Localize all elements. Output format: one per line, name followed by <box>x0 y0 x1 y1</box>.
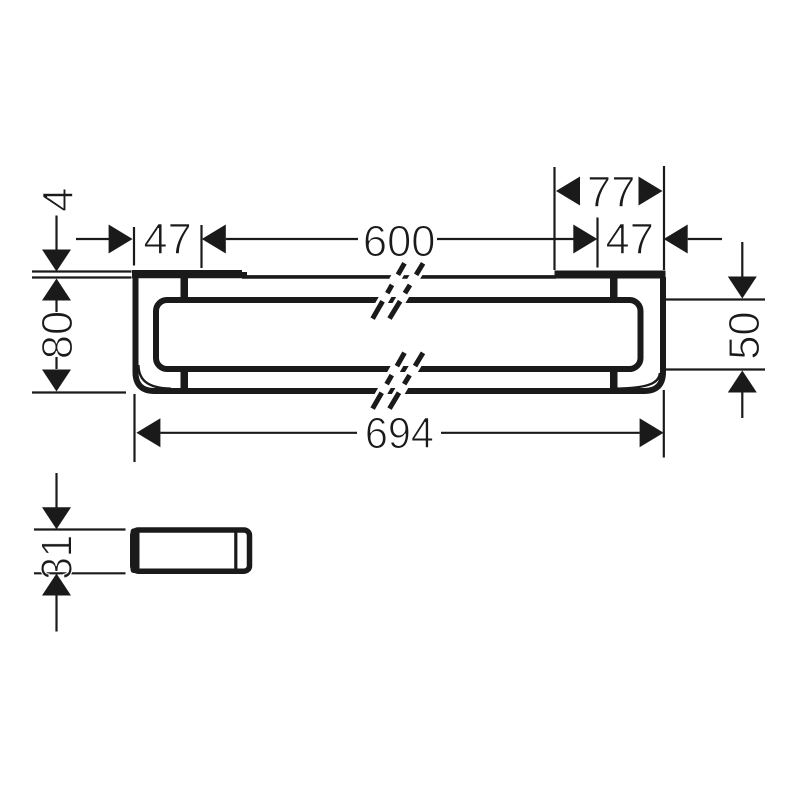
svg-text:47: 47 <box>606 216 654 264</box>
side view wall plate band <box>131 528 140 573</box>
svg-text:4: 4 <box>35 188 83 212</box>
towel bar outer body outline <box>136 277 664 391</box>
top break mark white halo <box>373 263 424 318</box>
dimension 694: extension lines, line, arrows <box>133 394 135 462</box>
svg-text:694: 694 <box>365 410 434 458</box>
svg-text:77: 77 <box>587 169 635 217</box>
left wall plate <box>132 270 247 278</box>
towel rail bar (rounded) <box>156 300 641 369</box>
top break mark slashes <box>373 263 405 318</box>
left corner fillet contour <box>138 365 171 389</box>
svg-text:80: 80 <box>34 311 82 359</box>
dimension 77: extension lines, arrows <box>553 167 555 270</box>
bottom break mark white halo <box>373 353 423 409</box>
dimension 80: arrows and line <box>42 279 71 301</box>
extension line body top (left) <box>32 276 132 278</box>
svg-text:47: 47 <box>143 216 191 264</box>
dimension 50: extension lines, arrows, line <box>666 298 765 300</box>
side view bar end divider <box>234 530 237 574</box>
extension line plate top (left) <box>32 270 132 272</box>
bottom break mark slashes <box>373 353 405 409</box>
svg-text:600: 600 <box>363 218 436 266</box>
dimension 47 right: arrow and line <box>664 225 688 254</box>
right corner fillet contour <box>614 373 660 389</box>
svg-text:50: 50 <box>721 311 769 359</box>
dimension 31: extension lines, line, arrows <box>34 528 126 530</box>
dimension 4: line and arrow <box>55 216 57 251</box>
svg-text:31: 31 <box>33 535 81 580</box>
dimension 47 left: line, arrows, extension lines <box>76 238 110 240</box>
side view outer profile <box>133 530 250 571</box>
left holder post <box>181 277 189 303</box>
body top edge line between wall plates <box>242 275 556 279</box>
right wall plate <box>555 271 666 279</box>
dimension 600: line and right arrow <box>226 238 574 240</box>
extension line body bottom (left) <box>32 391 126 393</box>
right holder post <box>610 277 618 303</box>
